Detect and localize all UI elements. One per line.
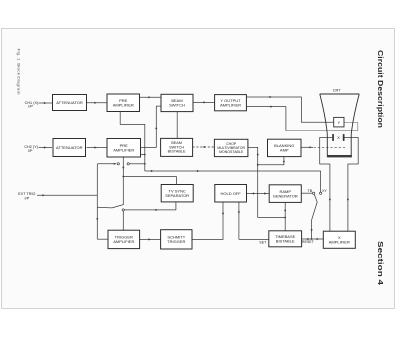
svg-text:Circuit Description: Circuit Description: [376, 50, 383, 128]
svg-text:GENERATOR: GENERATOR: [273, 193, 298, 198]
svg-text:BISTABLE: BISTABLE: [276, 239, 295, 244]
svg-text:CRT: CRT: [333, 88, 341, 92]
svg-text:AMPLIFIER: AMPLIFIER: [113, 103, 134, 108]
svg-text:MONOSTABLE: MONOSTABLE: [219, 150, 244, 154]
svg-text:I/P: I/P: [24, 197, 29, 201]
svg-text:XY: XY: [322, 189, 327, 193]
svg-text:I/P: I/P: [28, 105, 33, 109]
svg-text:AMPLIFIER: AMPLIFIER: [113, 148, 134, 153]
svg-text:Section 4: Section 4: [376, 241, 383, 285]
svg-text:BISTABLE: BISTABLE: [168, 150, 186, 154]
svg-text:AMPLIFIER: AMPLIFIER: [113, 239, 134, 244]
svg-text:HOLD OFF: HOLD OFF: [221, 191, 242, 196]
svg-text:AMP: AMP: [280, 148, 289, 153]
svg-text:TRIGGER: TRIGGER: [167, 239, 185, 244]
svg-text:SET: SET: [259, 240, 267, 244]
svg-text:EXT TRIG: EXT TRIG: [18, 192, 35, 196]
svg-text:SEPARATOR: SEPARATOR: [165, 193, 189, 198]
svg-text:AMPLIFIER: AMPLIFIER: [329, 240, 350, 245]
svg-text:Y: Y: [337, 120, 340, 125]
svg-text:Fig. 1 Block Diagram: Fig. 1 Block Diagram: [17, 49, 21, 95]
svg-text:X: X: [337, 135, 340, 140]
svg-text:I/P: I/P: [28, 149, 33, 153]
svg-text:SWITCH: SWITCH: [169, 103, 185, 108]
svg-text:AMPLIFIER: AMPLIFIER: [220, 102, 241, 107]
svg-text:ATTENUATOR: ATTENUATOR: [56, 100, 83, 105]
svg-text:RESET: RESET: [302, 240, 315, 244]
svg-text:ATTENUATOR: ATTENUATOR: [56, 145, 83, 150]
svg-text:TB: TB: [308, 189, 313, 193]
